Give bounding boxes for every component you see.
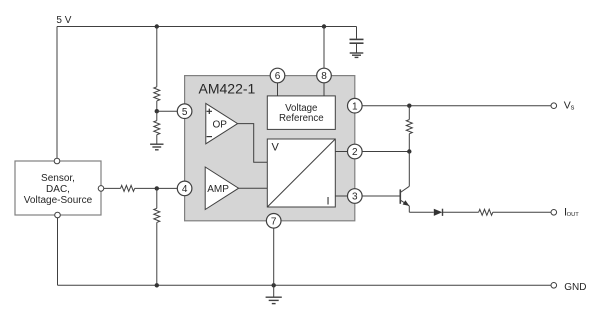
svg-text:Voltage-Source: Voltage-Source [24,195,93,206]
terminal Iout [551,210,557,216]
wire sensor bottom to gnd rail [57,218,59,285]
svg-text:AM422-1: AM422-1 [199,80,256,96]
wire node4 to R5 [156,188,158,208]
wire 5V left drop to sensor [56,27,58,159]
wire pin2 to node [362,151,409,153]
resistor R3 [406,120,412,134]
pin 1 [348,98,363,113]
svg-text:DAC,: DAC, [46,184,70,195]
junction gnd/pin7 [272,283,276,287]
wire sensor to R4 [104,187,121,189]
transistor Q1 [400,186,409,206]
wire gnd rail [58,284,552,286]
diode D1 [434,209,443,216]
wire gnd rail to ground symbol [273,285,275,297]
svg-text:GND: GND [564,282,586,293]
wire node to collector [408,152,410,187]
transistor emitter arrow [403,200,410,206]
junction pin1/R3 [407,104,411,108]
svg-text:8: 8 [321,71,327,82]
svg-text:1: 1 [352,101,358,112]
wire emitter down [408,206,410,212]
svg-text:Sensor,: Sensor, [41,173,75,184]
svg-text:I: I [327,195,330,207]
wire R2 to ground [156,135,158,144]
resistor R2 [154,121,160,135]
wire V/I to pin3 [335,195,347,197]
wire pin6 to vref [277,83,279,96]
wire 5V rail [57,26,357,28]
svg-text:5: 5 [182,107,188,118]
pin 6 [270,68,285,83]
junction 5V/C1 [322,24,326,28]
wire rail to capacitor [356,27,358,39]
ground (R2) [150,144,163,150]
wire AMP output to V/I [239,187,268,189]
terminal Vs [551,103,557,109]
ground (main) [266,297,282,303]
resistor R4 (horizontal) [121,185,135,191]
terminal GND [551,283,557,289]
ground (capacitor) [350,53,364,57]
wire pin7 to gnd rail [273,228,275,285]
wire node to R2 [156,111,158,120]
svg-text:V: V [272,142,280,154]
junction node R1/R2/pin5 [155,109,159,113]
terminal sensor bottom [55,212,61,218]
wire R5 to gnd rail [156,222,158,285]
pin 8 [317,68,332,83]
junction node R4/R5/pin4 [155,186,159,190]
V/I converter box [267,139,335,207]
wire R3 to pin2 node [408,134,410,152]
wire R4 to node4 [135,187,178,189]
terminal sensor right [98,186,104,192]
wire V/I to pin2 [335,151,347,153]
capacitor C1 [350,39,364,52]
pin 3 [348,189,363,204]
resistor R5 [154,208,160,222]
svg-text:3: 3 [352,192,358,203]
svg-text:OP: OP [213,120,228,131]
pin 4 [177,181,192,196]
sensor box [15,161,101,215]
wire R6 to Iout [493,211,551,213]
op-amp OP [206,103,238,143]
pin 5 [177,104,192,119]
wire R1 to node5 [156,101,158,111]
svg-text:7: 7 [271,216,277,227]
junction pin2/R3/collector [407,149,411,153]
wire pin8 to vref [323,83,325,96]
resistor R6 (horizontal) [479,209,493,215]
wire OP output to V/I [238,124,268,163]
svg-text:4: 4 [182,184,188,195]
svg-text:OUT: OUT [567,212,580,218]
wire pin1 node to R3 [408,106,410,120]
wire pin1 to Vs [362,105,551,107]
svg-text:AMP: AMP [207,184,229,195]
resistor R1 [154,87,160,101]
svg-text:2: 2 [352,147,358,158]
pin 2 [348,144,363,159]
svg-text:Reference: Reference [279,113,324,124]
wire emitter to diode [409,211,434,213]
voltage reference box [267,96,335,129]
pin 7 [266,214,281,229]
terminal sensor top [54,158,60,164]
IC block AM422-1 [185,76,355,221]
amplifier AMP [205,167,238,210]
wire pin3 to base [362,195,400,197]
wire diode to R6 [443,211,479,213]
junction 5V/R1 [155,24,159,28]
wire rail to R1 [156,27,158,87]
wire node to pin 5 [157,110,178,112]
svg-text:5 V: 5 V [56,15,71,26]
wire rail to pin8 [323,27,325,69]
junction gnd/R5 [155,283,159,287]
svg-text:s: s [571,103,575,112]
svg-text:6: 6 [275,71,281,82]
V/I diagonal [267,139,335,207]
